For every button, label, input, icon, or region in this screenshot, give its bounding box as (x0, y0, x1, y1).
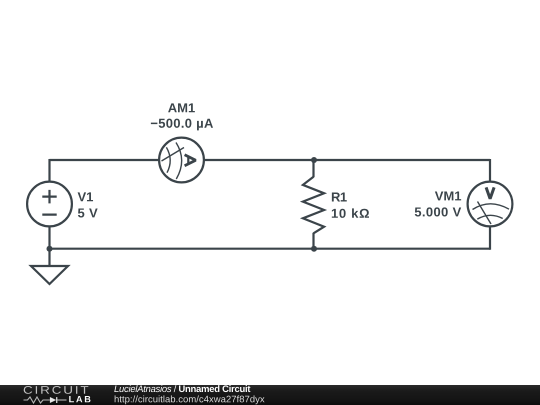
CircuitLab logo wordmark LAB (69, 396, 90, 402)
label R1 (332, 193, 347, 202)
CircuitLab logo wordmark CIRCUIT (24, 386, 89, 394)
label AM1 (168, 103, 195, 112)
label V1 (78, 192, 93, 201)
wire bottom net (50, 248, 491, 250)
value label 5 V (78, 208, 98, 217)
CircuitLab logo resistor squiggle wire (24, 397, 67, 403)
ground (31, 266, 68, 284)
ammeter AM1 (159, 138, 204, 183)
CircuitLab logo diode cathode bar (56, 397, 58, 403)
node junction top (R1 / top net) (311, 157, 317, 163)
footer bar (0, 385, 540, 405)
value label 5.000 V (415, 207, 461, 216)
wire right VM1 leads (489, 159, 491, 250)
voltage source V1 (27, 182, 72, 227)
resistor R1 zigzag (303, 177, 324, 234)
voltmeter VM1 (468, 182, 513, 227)
value label 10 kOhm (332, 208, 369, 218)
footer text line 1: author / circuit title (114, 385, 250, 392)
wire left V1 leads (48, 159, 50, 266)
value label -500.0 uA (151, 119, 213, 131)
wire resistor R1 leads (312, 159, 314, 250)
node junction bottom (R1 / bottom net) (311, 246, 317, 252)
footer text line 2: circuit url (115, 395, 265, 404)
node junction at V1 / ground (47, 246, 53, 252)
CircuitLab logo diode triangle (50, 397, 56, 403)
label VM1 (435, 191, 461, 200)
wire top net from V1 through AM1 to R1 and VM1 (50, 159, 491, 161)
